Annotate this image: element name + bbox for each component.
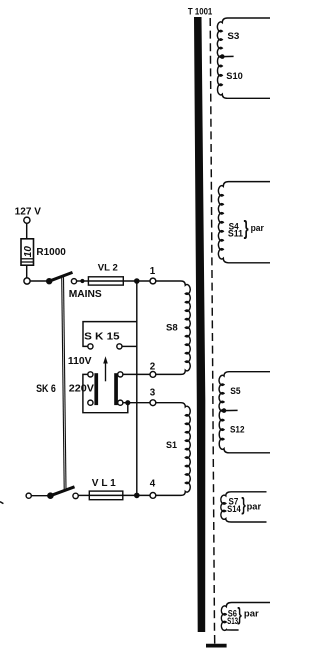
svg-text:}: }	[237, 604, 241, 625]
wire contact to fuse VL1	[78, 494, 89, 496]
SK6 linkage line 2	[64, 277, 67, 490]
svg-text:S12: S12	[230, 424, 245, 435]
SK6 upper blade	[49, 272, 72, 281]
node before fuse VL2	[80, 279, 84, 283]
wire terminal to SK6 pivot	[30, 280, 46, 282]
svg-text:S3: S3	[227, 30, 239, 41]
SK6 upper contact	[71, 279, 76, 284]
wire SK15 top-right contact to bus	[122, 345, 137, 347]
svg-text:MAINS: MAINS	[69, 289, 102, 300]
shield lead to ground	[214, 635, 216, 644]
svg-text:3: 3	[150, 387, 156, 398]
svg-text:1: 1	[150, 266, 156, 277]
transformer shield dashed line	[210, 18, 214, 631]
resistor band line 1	[21, 258, 34, 260]
chassis ground bar	[206, 644, 227, 648]
wire fuse VL1 to terminal 4	[123, 494, 150, 496]
SK6 lower pole pivot	[47, 492, 54, 499]
resistor R1000	[21, 239, 34, 265]
SK15 middle-right contact	[118, 372, 123, 377]
svg-text:par: par	[247, 502, 262, 512]
SK6 lower blade	[50, 487, 74, 496]
svg-text:2: 2	[150, 361, 156, 372]
svg-text:V L 1: V L 1	[92, 478, 116, 489]
svg-text:127 V: 127 V	[15, 207, 42, 218]
svg-text:S1: S1	[166, 439, 177, 450]
wire fuse VL2 to terminal 1	[123, 280, 150, 282]
SK15 top-left contact	[88, 344, 93, 349]
svg-text:S8: S8	[166, 322, 178, 333]
transformer core	[194, 17, 205, 632]
winding S3/S10 with leads	[217, 18, 270, 98]
svg-text:par: par	[251, 223, 265, 233]
svg-text:220V: 220V	[69, 384, 94, 395]
winding S4/S11 (par) with leads	[218, 182, 270, 263]
terminal 1	[150, 278, 156, 284]
SK15 middle-left contact	[88, 372, 93, 377]
fuse VL2	[88, 277, 123, 285]
SK15 top-right contact	[117, 344, 122, 349]
tap node on S5/S12	[222, 408, 227, 413]
tap tick wire	[222, 55, 233, 57]
fuse VL1	[89, 491, 123, 500]
winding S5/S12 with leads	[219, 372, 270, 453]
svg-text:par: par	[244, 609, 259, 619]
wire 127V terminal to R1000	[26, 223, 28, 239]
vertical bus from VL2 junction to VL1 junction	[136, 281, 138, 495]
wire contact to fuse VL2	[77, 280, 89, 282]
svg-text:10: 10	[23, 246, 34, 258]
svg-text:VL 2: VL 2	[98, 262, 118, 273]
switch input terminal	[24, 278, 30, 284]
winding S1 with leads to terminals 3 and 4	[156, 403, 191, 496]
SK6 upper pole pivot	[46, 278, 52, 284]
svg-text:}: }	[241, 493, 245, 514]
terminal 2	[150, 372, 156, 378]
terminal 3	[150, 400, 156, 406]
winding S6/S13 (par) with leads	[221, 603, 270, 631]
SK6 linkage line 1	[62, 277, 64, 490]
svg-text:S11: S11	[228, 229, 243, 239]
junction after VL1	[134, 493, 140, 499]
svg-text:S5: S5	[230, 385, 240, 396]
svg-text:110V: 110V	[68, 356, 92, 367]
terminal 4	[150, 493, 156, 499]
svg-text:R1000: R1000	[36, 247, 66, 258]
junction at SK15 bottom-right	[125, 400, 130, 405]
tap tick wire	[224, 409, 238, 411]
lower input terminal	[26, 493, 31, 498]
wire SK15 bottom-right to terminal 3	[123, 402, 150, 404]
wire stub at left edge	[0, 502, 3, 504]
svg-text:S14: S14	[227, 504, 241, 514]
resistor band line 2	[21, 261, 34, 263]
tap node on S3/S10	[220, 54, 225, 59]
winding S7/S14 (par) with leads	[221, 492, 267, 522]
junction after VL2	[134, 278, 140, 284]
SK15 right shorting bar	[114, 373, 118, 405]
SK15 left shorting bar	[94, 373, 98, 405]
wire bus to SK15 top-left contact	[83, 322, 137, 347]
SK15 bottom-left contact	[88, 400, 93, 405]
wire junction to SK15 middle-left contact	[83, 374, 128, 412]
SK6 lower contact	[73, 493, 78, 498]
wire R1000 to switch terminal	[26, 265, 28, 278]
wire terminal to SK6 lower pivot	[31, 495, 47, 497]
wire SK15 middle-right to terminal 2	[123, 373, 150, 375]
winding S8 with leads to terminals 1 and 2	[156, 281, 191, 374]
svg-text:T 1001: T 1001	[188, 6, 212, 16]
SK15 actuation arrow	[105, 363, 107, 382]
terminal 127V	[24, 217, 30, 223]
svg-text:SK 6: SK 6	[36, 383, 56, 395]
SK15 bottom-right contact	[118, 400, 123, 405]
svg-text:}: }	[244, 218, 249, 240]
svg-text:4: 4	[150, 479, 156, 490]
svg-text:S10: S10	[226, 70, 243, 81]
svg-text:S K 15: S K 15	[84, 332, 120, 343]
